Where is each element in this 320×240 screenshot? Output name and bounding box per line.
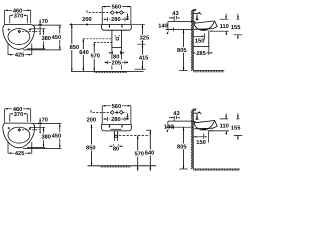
small edge dim mark [126,16,128,20]
tap hole center cross [115,111,119,115]
center tap hole diamond [18,30,22,34]
svg-text:285: 285 [196,51,206,57]
small edge dim mark [126,115,128,119]
dim 460 [5,8,31,24]
basin front outline [102,24,132,30]
dim 80 [109,51,125,60]
basin front outline [102,124,132,130]
floor hatch [194,169,240,171]
svg-text:805: 805 [177,145,187,151]
svg-text:140: 140 [158,24,168,30]
svg-text:570: 570 [134,152,144,158]
floor hatch [95,71,128,73]
svg-text:325: 325 [140,36,150,42]
dim 200 reference [70,10,102,25]
svg-text:200: 200 [87,117,97,123]
dim 43 [169,111,180,121]
semi-pedestal [112,30,122,47]
basin inner bowl [8,29,30,45]
svg-text:205: 205 [112,60,122,66]
svg-text:150: 150 [195,39,205,45]
rim level extension [168,121,193,127]
dim 150 [194,33,205,44]
dim 205 [105,60,128,66]
dim 805 [177,127,188,169]
dim 110 and 155 [209,114,243,140]
svg-text:570: 570 [90,53,100,59]
dim 640 [79,39,112,72]
drain boss under basin [111,128,122,130]
svg-text:640: 640 [79,50,89,56]
dim 140 [158,24,193,35]
dim 450 [23,25,61,50]
wall line [192,109,194,169]
svg-text:110: 110 [220,124,229,130]
rim level extension [168,22,193,30]
tap hole diamond left [110,11,114,15]
dim 805 [177,29,188,70]
tap position arrows on rim [109,25,122,27]
dim 415 right [135,44,149,69]
svg-text:425: 425 [15,53,25,59]
dim 140 [164,124,193,132]
svg-text:155: 155 [231,25,241,31]
tap hole diamond right [119,111,123,115]
basin outer outline [3,25,35,50]
basin profile [194,120,218,130]
pedestal fixing dots [115,35,116,36]
dim 560 [102,5,131,25]
tap hole diamond left [110,111,114,115]
svg-text:43: 43 [172,11,178,17]
tap hole center cross [115,11,119,15]
svg-text:415: 415 [139,55,149,61]
svg-text:380: 380 [41,36,51,42]
dim 850 left [70,24,80,71]
semi-pedestal side profile [193,31,208,46]
tap hole centerline dashed [89,12,111,14]
left corner tap mark [8,29,10,31]
dim 570 [90,42,111,71]
drain pipe stub [204,131,209,143]
svg-text:805: 805 [177,48,187,54]
svg-text:640: 640 [145,150,155,156]
svg-text:450: 450 [52,35,62,41]
dim 110 and 155 [210,14,242,39]
dim 285 [194,51,213,57]
right corner tap mark [29,29,31,31]
floor line [193,70,224,72]
drain circle [115,135,118,138]
drain center dashed line [119,135,150,137]
svg-text:155: 155 [231,125,241,131]
floor hatch [101,166,131,168]
rim extension line with wall tap dots [70,23,102,25]
svg-text:560: 560 [112,5,122,11]
svg-text:850: 850 [86,145,96,151]
pedestal extension lines [112,47,122,69]
tap hole diamond right [119,11,123,15]
wall hatch [191,10,193,71]
dim 280 [104,117,129,123]
basin profile [194,21,218,31]
svg-text:80: 80 [113,54,119,60]
dim 80 [109,144,123,152]
tap hole centerline dashed [93,111,111,113]
svg-text:110: 110 [220,24,229,30]
drain pipe [114,131,117,141]
svg-text:560: 560 [112,104,122,110]
tap position arrows on rim [109,125,122,127]
svg-text:150: 150 [196,140,206,146]
svg-text:80: 80 [113,146,119,152]
dim 850 left [86,125,96,166]
dim 425 [8,44,32,59]
dim 70 [22,19,48,35]
faucet [193,9,201,20]
dim 370 [10,13,28,23]
svg-text:280: 280 [111,117,121,123]
dim 560 [102,104,131,124]
floor line [193,168,240,170]
dim 150 [194,135,207,146]
dim 640 [145,130,155,171]
floor line [71,70,144,72]
faucet [193,108,201,119]
svg-text:200: 200 [82,17,92,23]
dim 43 [169,11,180,21]
wall hatch [191,110,193,170]
dim 280 [104,17,129,23]
wall line [192,9,194,71]
floor line [88,165,157,167]
dim 570 [134,136,144,171]
svg-text:70: 70 [42,19,48,25]
dim 380 [27,29,51,49]
dim 200 reference [87,110,97,128]
svg-text:280: 280 [111,17,121,23]
pedestal fixing slot [116,38,118,40]
svg-text:370: 370 [14,13,24,19]
floor hatch [194,71,225,73]
svg-text:850: 850 [70,45,80,51]
dim 325 right [132,24,149,44]
